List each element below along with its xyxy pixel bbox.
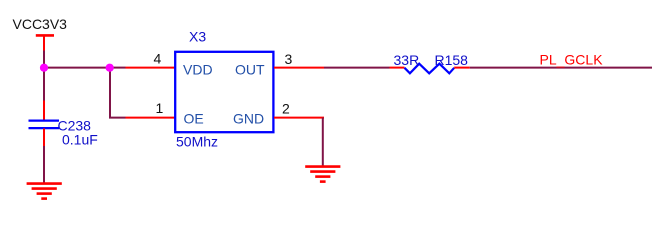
pin 4 VDD stub [126,67,176,69]
svg-text:4: 4 [154,50,162,66]
svg-text:GND: GND [233,111,264,127]
capacitor C238 plates [29,121,60,129]
pin 2 GND stub [274,117,324,119]
resistor R158 zigzag [405,64,455,74]
node junction dot A [40,64,48,72]
wire to VDD pin [110,67,126,69]
wire main horizontal [43,67,110,69]
svg-text:OUT: OUT [235,61,265,77]
capacitor C238 bottom lead [43,129,45,147]
svg-text:0.1uF: 0.1uF [62,132,98,148]
wire resistor to PL_GCLK [470,67,652,69]
svg-text:50Mhz: 50Mhz [176,134,218,150]
oscillator U1 body X3 [175,52,273,132]
wire OUT to resistor [324,67,390,69]
wire junction B down to OE [109,68,111,118]
svg-text:1: 1 [156,100,164,116]
wire horizontal to OE pin [109,117,126,119]
wire junction A down to capacitor [43,68,45,101]
pin 3 OUT stub [274,67,324,69]
svg-text:OE: OE [184,111,204,127]
svg-text:VCC3V3: VCC3V3 [13,16,68,32]
wire power stem [43,51,45,69]
svg-text:VDD: VDD [183,61,213,77]
svg-text:PL_GCLK: PL_GCLK [540,51,604,67]
svg-text:2: 2 [282,101,290,117]
pin 1 OE stub [126,117,176,119]
node junction dot B [106,64,114,72]
ground symbol left [27,184,62,199]
svg-text:X3: X3 [189,29,206,45]
svg-text:3: 3 [285,51,293,67]
ground symbol right [305,167,340,182]
svg-text:33R: 33R [394,52,420,68]
capacitor C238 top lead [43,101,45,121]
wire capacitor to ground [43,146,45,183]
wire GND pin down to ground [322,118,324,167]
capacitor C238 value labels [58,118,98,148]
power symbol VCC3V3 bar [36,35,54,51]
resistor R158 right lead [454,67,470,69]
resistor R158 left lead [390,67,405,69]
svg-text:R158: R158 [435,52,469,68]
